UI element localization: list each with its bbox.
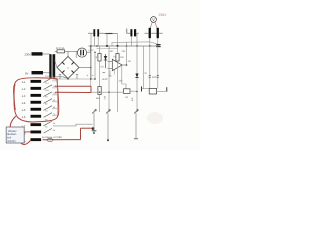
- wire (mains L to transformer): [43, 53, 50, 55]
- pin 1-4: [22, 96, 58, 105]
- transformer T1: [49, 54, 55, 77]
- terminal pin (mains L): [32, 52, 43, 55]
- wire (op-amp output): [122, 64, 127, 66]
- wire (red ground run right): [81, 127, 93, 129]
- capacitor C4 (electrolytic): [157, 28, 163, 38]
- wire (red curve box bottom to ground run): [21, 140, 31, 144]
- terminal stub x77: [76, 75, 78, 80]
- svg-text:Si 0,5A: Si 0,5A: [56, 47, 65, 50]
- op-amp U1: [108, 59, 123, 71]
- svg-text:1-2: 1-2: [22, 88, 26, 91]
- node dot x117.5 (large): [116, 45, 118, 47]
- resistor R5 (vertical): [98, 87, 101, 95]
- node dot: [136, 91, 138, 93]
- pin 1-1: [22, 75, 58, 84]
- resistor R3 (vertical): [116, 46, 119, 61]
- wire (red voltmeter lead right): [155, 22, 158, 30]
- wire (connector top bus y79): [55, 78, 95, 80]
- wire (transformer secondary top): [55, 50, 57, 52]
- node junction dots on bus: [96, 45, 158, 47]
- connector right bus: [57, 79, 59, 116]
- wire (lamp left lead down): [75, 51, 77, 58]
- node dot: [126, 64, 128, 66]
- wire (feedback from bus to output): [126, 46, 128, 65]
- wire (link rail to bus x126.5): [126, 42, 128, 46]
- wire (drop x131): [130, 36, 132, 46]
- svg-text:WK050: WK050: [7, 140, 16, 143]
- pin 1-3: [22, 89, 58, 98]
- svg-text:teil: teil: [7, 136, 11, 140]
- svg-text:2k2: 2k2: [122, 50, 127, 53]
- wire (vertical rail x143.5): [143, 46, 145, 89]
- wire (bridge output right): [79, 67, 91, 69]
- capacitor C1: [88, 29, 104, 36]
- capacitor dashes on rail x150: [149, 75, 151, 77]
- resistor R2 (vertical): [98, 46, 101, 87]
- svg-text:+17V: +17V: [88, 49, 94, 52]
- wire (bridge left corner to transformer): [55, 60, 57, 68]
- node (polarized cap marks at bus end): [156, 45, 160, 47]
- svg-text:0V: 0V: [25, 71, 29, 75]
- wire (drop x150): [149, 38, 151, 46]
- red enclosure annotation around connector: [14, 78, 59, 122]
- wire (secondary bottom to bridge bottom corner): [55, 77, 68, 79]
- wire (vertical rail x95): [94, 52, 96, 79]
- wire (horizontal mid bus y92): [91, 91, 124, 93]
- node dot: [108, 91, 110, 93]
- resistor R1 (horizontal): [104, 33, 118, 35]
- test point TP2: [106, 109, 111, 141]
- svg-text:6k8: 6k8: [96, 97, 101, 100]
- wire (drop x137): [136, 33, 138, 46]
- eraser smudge: [147, 112, 163, 124]
- terminal tick (right end): [166, 87, 168, 91]
- node dot: [94, 52, 95, 53]
- wire (red curve enclosure to box): [10, 116, 16, 127]
- wire (lamp to node x90): [87, 51, 91, 53]
- bridge rectifier B1: [57, 57, 79, 79]
- wire (output down jog): [122, 65, 126, 89]
- svg-text:+: +: [67, 66, 69, 70]
- wire (vertical rail x90.8 down): [90, 52, 92, 92]
- node dot x107 (large): [106, 45, 108, 47]
- terminal pin (mains N): [32, 71, 44, 74]
- svg-text:1M: 1M: [128, 60, 131, 63]
- pin 1-8: [22, 126, 57, 136]
- wire (vertical rail x109): [108, 46, 110, 112]
- svg-text:4k7: 4k7: [110, 50, 115, 53]
- red enclosure overdraw (left side): [14, 84, 15, 110]
- capacitor dashes on rail x158: [157, 75, 159, 77]
- wire (red curve box to pin row): [24, 131, 30, 133]
- test point TP1: [92, 109, 97, 134]
- zener diode D1: [104, 54, 107, 68]
- svg-text:1N: 1N: [125, 96, 128, 99]
- svg-text:+: +: [87, 74, 89, 78]
- wire (R4 to rail x137): [130, 90, 137, 92]
- terminal stub x60: [59, 75, 61, 80]
- node dot: [90, 67, 92, 69]
- svg-text:3k3: 3k3: [119, 80, 124, 83]
- wire (red ground run up): [80, 128, 82, 139]
- test point TP3: [134, 109, 139, 139]
- wire (lower right bus y89): [142, 88, 150, 90]
- resistor R6 (box): [149, 88, 156, 94]
- fuse F1: [57, 50, 65, 53]
- wire (vertical rail x150 lower): [149, 46, 151, 88]
- node dot: [99, 92, 100, 93]
- svg-text:1-6: 1-6: [22, 116, 26, 119]
- op-amp pin stubs below: [109, 71, 111, 77]
- wire (secondary top to bridge top corner): [67, 51, 69, 56]
- wire (bridge bottom to bus y79): [67, 78, 69, 81]
- diode D2 on rail x137: [135, 74, 138, 78]
- svg-text:230V: 230V: [159, 13, 168, 17]
- voltmeter V1 (red annotation): [151, 17, 157, 23]
- lamp GL1 (neon indicator): [77, 48, 86, 57]
- pin 1-7: [22, 118, 57, 128]
- svg-text:1-1: 1-1: [22, 81, 26, 84]
- node dot: [90, 78, 92, 80]
- wire (vertical rail x117.5 lower): [117, 61, 119, 112]
- wire (red vertical joiner): [90, 86, 92, 92]
- svg-text:1-4: 1-4: [22, 102, 26, 105]
- wire (vertical rail x158 lower): [157, 46, 159, 88]
- svg-text:V: V: [152, 18, 155, 22]
- pin 1-9: [22, 136, 63, 143]
- pin 1-2: [22, 82, 58, 91]
- ground tick (left end of lower right bus): [141, 87, 143, 92]
- wire (drop x158): [157, 38, 159, 46]
- wire (top supply bus): [89, 45, 161, 47]
- wire (red link row2 to node): [55, 85, 91, 87]
- svg-text:-: -: [113, 62, 114, 65]
- wire (mains N to transformer): [43, 72, 50, 74]
- capacitor C3 (electrolytic): [145, 28, 157, 38]
- wire (drop x97): [93, 36, 95, 46]
- wire (drop x117): [117, 34, 119, 47]
- wire (drop x91): [90, 33, 92, 46]
- control unit box (blue): [6, 127, 24, 143]
- wire (vertical rail x137): [136, 46, 138, 112]
- wire (row7 to test point): [53, 124, 93, 126]
- svg-text:+12V: +12V: [102, 78, 108, 81]
- capacitor C2: [127, 29, 139, 37]
- svg-text:1-5: 1-5: [22, 109, 26, 112]
- svg-text:10n: 10n: [152, 76, 157, 79]
- wire (secondary rail y48.3): [97, 47, 119, 49]
- wire (R5 down): [99, 95, 101, 113]
- svg-text:1-3: 1-3: [22, 95, 26, 98]
- node dot x91 on bus: [90, 45, 92, 47]
- wire (red link row3 to node): [55, 91, 91, 93]
- wire (fuse to lamp): [65, 50, 78, 52]
- wire (upper shunt rail y42): [112, 42, 160, 46]
- tick marks (pin dashes): [103, 72, 106, 74]
- node (solder blob): [92, 127, 95, 130]
- ferrite bead on ground run: [47, 138, 53, 141]
- wire (red voltmeter lead left): [150, 22, 152, 30]
- wire (red ground run bottom): [43, 139, 81, 141]
- pin 1-5: [22, 103, 58, 112]
- resistor R4 (horizontal box): [124, 89, 131, 94]
- svg-text:+: +: [92, 74, 94, 78]
- pin 1-6: [22, 110, 58, 119]
- node dot: [94, 78, 96, 80]
- wire (drop x107): [106, 34, 108, 47]
- wire (bus stub to lamp wire, dark): [90, 46, 92, 79]
- svg-text:230V: 230V: [25, 52, 32, 56]
